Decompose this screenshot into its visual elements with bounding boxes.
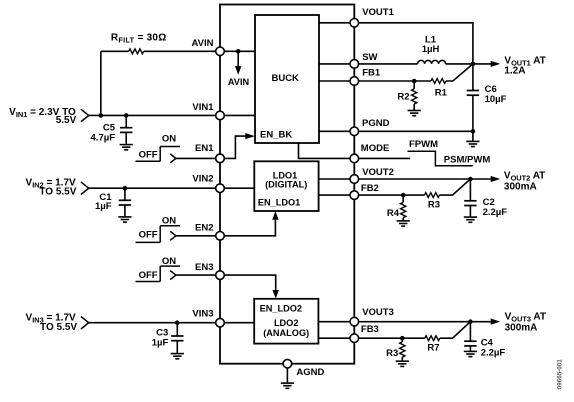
ground below R2	[408, 111, 421, 116]
ground below C5	[120, 145, 133, 150]
wire BUCK to FB1 pin	[319, 80, 350, 82]
wire EN3 to EN_LDO2 with arrowhead	[224, 275, 279, 299]
buck converter block BUCK with pin EN_BK	[255, 15, 319, 143]
svg-text:FB3: FB3	[361, 324, 379, 335]
svg-text:R2: R2	[397, 92, 409, 103]
svg-text:09665-001: 09665-001	[557, 359, 564, 390]
junction R2 top	[412, 79, 417, 84]
svg-text:FB2: FB2	[361, 183, 379, 194]
wire switch to EN1 pin	[176, 157, 216, 159]
junction C1	[123, 186, 128, 191]
wire VOUT1 to output rail	[359, 23, 473, 64]
pin FB3	[350, 324, 379, 343]
wire VIN3 source to pin	[89, 322, 216, 324]
wire EN1 to EN_BK with arrowhead	[224, 133, 255, 158]
source label VIN1 = 2.3V TO 5.5V	[9, 107, 76, 126]
svg-text:TO 5.5V: TO 5.5V	[40, 322, 77, 333]
capacitor C4 2.2uF	[464, 322, 505, 359]
wire FB3 to divider	[359, 337, 425, 339]
input terminal chevron VIN2	[81, 182, 89, 195]
pin AGND	[283, 359, 324, 377]
svg-text:VIN3: VIN3	[192, 309, 213, 320]
svg-text:PSM/PWM: PSM/PWM	[444, 155, 491, 166]
wire AVIN pin to BUCK	[224, 50, 255, 52]
svg-text:TO 5.5V: TO 5.5V	[39, 187, 76, 198]
ground below PGND	[466, 131, 479, 146]
svg-text:10µF: 10µF	[485, 94, 507, 105]
pin EN2	[195, 223, 224, 241]
wire LDO1 to VOUT2 pin	[319, 178, 350, 180]
wire up to RFILT	[100, 51, 102, 115]
wire RFILT to AVIN pin	[144, 50, 216, 52]
pin SW	[350, 52, 378, 68]
pin VIN3	[192, 309, 224, 327]
wire FB1 to divider	[359, 80, 431, 82]
MODE waveform FPWM high / PSM-PWM low	[408, 139, 491, 166]
junction AVIN arrow	[236, 49, 241, 54]
wire VIN1 pin to BUCK	[224, 114, 255, 116]
wire LDO2 to VOUT3 pin	[318, 321, 350, 323]
pin EN1	[195, 143, 224, 163]
svg-text:2.2µF: 2.2µF	[481, 348, 506, 359]
LDO1 digital block with pin EN_LDO1	[254, 161, 318, 211]
ground below C3	[171, 354, 184, 359]
switch ON/OFF EN1	[136, 134, 181, 163]
pin MODE	[350, 143, 389, 163]
junction R3 lower top	[400, 336, 405, 341]
wire VOUT3 to output junction	[359, 321, 471, 323]
wire EN2 to EN_LDO1 with arrowhead	[224, 211, 278, 236]
svg-text:ON: ON	[162, 256, 176, 267]
wire inductor to output junction	[446, 63, 473, 65]
wire VOUT2 to output junction	[359, 178, 471, 180]
output label VOUT1 AT 1.2A	[504, 56, 545, 77]
svg-text:AVIN: AVIN	[228, 77, 250, 87]
pin AVIN	[192, 38, 225, 56]
pin VOUT2	[350, 167, 394, 183]
svg-text:PGND: PGND	[362, 118, 390, 129]
svg-text:VOUT3: VOUT3	[362, 307, 394, 318]
input terminal chevron VIN1	[81, 109, 89, 122]
ground below R3 lower	[396, 361, 409, 366]
svg-text:R7: R7	[427, 343, 439, 354]
pin FB1	[350, 67, 381, 85]
svg-text:OFF: OFF	[139, 230, 158, 241]
junction C3	[175, 320, 180, 325]
wire PGND to ground	[359, 130, 473, 132]
wire and diagonal R7 to output junction	[440, 322, 471, 339]
switch ON/OFF EN2	[136, 216, 181, 243]
junction PGND ground	[471, 129, 476, 134]
pin VIN1	[192, 102, 224, 120]
svg-text:VOUT2: VOUT2	[362, 167, 394, 178]
svg-text:EN1: EN1	[195, 143, 214, 154]
svg-text:1µF: 1µF	[95, 201, 112, 212]
svg-text:300mA: 300mA	[504, 182, 537, 193]
svg-text:MODE: MODE	[361, 143, 390, 154]
output arrow VOUT2	[470, 176, 500, 182]
svg-text:(DIGITAL): (DIGITAL)	[265, 179, 307, 189]
svg-text:R1: R1	[435, 88, 448, 99]
svg-text:1µH: 1µH	[422, 44, 440, 55]
IC outer boundary box	[220, 5, 354, 364]
wire VIN3 pin to LDO2	[224, 322, 254, 324]
junction RFILT branch	[99, 113, 104, 118]
switch ON/OFF EN3	[136, 256, 181, 282]
capacitor C2 2.2uF	[464, 179, 507, 218]
ground below C4	[464, 351, 477, 356]
output label VOUT3 AT 300mA	[505, 311, 546, 333]
input terminal chevron VIN3	[81, 316, 89, 329]
svg-text:EN2: EN2	[195, 223, 213, 234]
svg-text:OFF: OFF	[139, 270, 158, 281]
LDO2 analog block with pin EN_LDO2	[254, 299, 318, 344]
pin FB2	[350, 183, 379, 200]
wire FB2 to divider	[359, 194, 425, 196]
junction VOUT1 output node	[471, 62, 476, 67]
resistor R2	[397, 81, 416, 110]
wire MODE external	[359, 157, 410, 159]
wire LDO2 to FB3 pin	[318, 337, 350, 339]
resistor R7	[425, 336, 440, 354]
figure number 09665-001	[557, 359, 564, 390]
resistor RFILT	[129, 49, 144, 54]
value label RFILT = 30 ohm	[111, 32, 167, 44]
wire SW to inductor	[359, 63, 418, 65]
svg-text:R3: R3	[428, 200, 440, 211]
svg-text:LDO2: LDO2	[274, 318, 299, 328]
svg-text:1.2A: 1.2A	[504, 66, 525, 77]
pin PGND	[350, 118, 390, 136]
svg-text:VIN1: VIN1	[192, 102, 214, 113]
svg-text:FB1: FB1	[362, 67, 381, 78]
svg-text:VOUT1: VOUT1	[362, 7, 394, 18]
resistor R1	[431, 79, 448, 99]
junction R4 top	[401, 193, 406, 198]
svg-text:4.7µF: 4.7µF	[91, 132, 116, 143]
pin VOUT1	[350, 7, 395, 27]
capacitor C6 10uF	[467, 64, 507, 131]
pin VOUT3	[350, 307, 394, 326]
wire LDO1 to FB2 pin	[319, 194, 350, 196]
ground below AGND	[281, 368, 294, 388]
svg-text:5.5V: 5.5V	[56, 115, 77, 126]
resistor R4	[387, 195, 406, 221]
wire VIN2 source to pin	[89, 187, 216, 189]
svg-text:EN3: EN3	[195, 262, 213, 273]
capacitor C5 4.7uF	[91, 115, 133, 144]
ground below R4	[397, 221, 410, 226]
junction VOUT3 output node	[468, 319, 473, 324]
svg-text:(ANALOG): (ANALOG)	[263, 328, 309, 338]
wire and diagonal R1 to output junction	[446, 64, 473, 81]
pin VIN2	[192, 174, 224, 193]
svg-text:R3: R3	[386, 348, 398, 359]
wire VIN1 source to pin	[89, 114, 216, 116]
svg-text:EN_LDO1: EN_LDO1	[258, 197, 300, 207]
resistor R3 upper	[425, 193, 441, 211]
wire BUCK to PGND pin	[319, 130, 350, 132]
wire and diagonal R3 to output junction	[440, 179, 471, 195]
wire switch to EN3 pin	[176, 274, 216, 276]
svg-text:2.2µF: 2.2µF	[483, 207, 508, 218]
source label VIN2 = 1.7V TO 5.5V	[26, 177, 77, 197]
svg-text:ON: ON	[162, 216, 176, 227]
svg-text:AGND: AGND	[296, 367, 324, 378]
output arrow VOUT3	[470, 319, 500, 325]
resistor R3 lower	[386, 338, 405, 361]
svg-text:R4: R4	[387, 208, 400, 219]
wire BUCK to VOUT1 pin	[319, 22, 350, 24]
ground below C2	[464, 217, 477, 222]
capacitor C3 1uF	[152, 323, 184, 354]
pin EN3	[195, 262, 224, 280]
ground below C1	[118, 217, 131, 222]
svg-text:SW: SW	[362, 52, 377, 63]
junction VOUT2 output node	[468, 177, 473, 182]
wire switch to EN2 pin	[176, 235, 216, 237]
junction C5	[124, 113, 129, 118]
inductor L1 1uH	[418, 34, 446, 64]
svg-text:OFF: OFF	[139, 149, 158, 160]
output arrow VOUT1	[473, 61, 500, 67]
svg-text:BUCK: BUCK	[271, 73, 299, 84]
svg-text:EN_BK: EN_BK	[260, 129, 292, 140]
svg-text:1µF: 1µF	[152, 338, 169, 349]
output label VOUT2 AT 300mA	[504, 171, 545, 193]
wire to resistor RFILT	[101, 50, 129, 52]
svg-text:FPWM: FPWM	[409, 139, 438, 150]
svg-text:300mA: 300mA	[505, 322, 538, 333]
source label VIN3 = 1.7V TO 5.5V	[26, 312, 78, 333]
svg-text:VIN2: VIN2	[192, 174, 213, 185]
svg-text:EN_LDO2: EN_LDO2	[260, 304, 302, 314]
wire VIN2 pin to LDO1	[224, 187, 254, 189]
AVIN internal node arrow	[228, 51, 250, 87]
svg-text:ON: ON	[162, 134, 176, 145]
capacitor C1 1uF	[95, 188, 131, 217]
svg-text:AVIN: AVIN	[192, 38, 214, 49]
wire from BUCK bottom to MODE pin	[299, 143, 351, 158]
wire BUCK to SW pin	[319, 63, 350, 65]
